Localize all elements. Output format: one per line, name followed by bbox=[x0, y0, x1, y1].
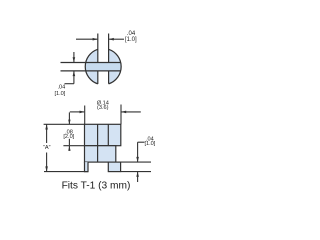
svg-text:[1.0]: [1.0] bbox=[54, 91, 65, 97]
svg-text:“A”: “A” bbox=[43, 145, 51, 151]
dim head height: bottom extension line bbox=[63, 145, 84, 147]
top view: H right bar fill bbox=[109, 48, 117, 85]
svg-text:.04: .04 bbox=[58, 85, 66, 91]
top view: circle outline right arc bbox=[109, 49, 122, 84]
dim head height: lower arrow below extension pointing up bbox=[68, 146, 70, 151]
dim crossbar: leader horizontal bbox=[65, 83, 74, 85]
top view: crossbar bottom edge + left extension line bbox=[61, 70, 121, 72]
top extension line for A and .08 bbox=[44, 123, 85, 125]
top view: bottom slot cutout bbox=[98, 72, 108, 89]
dim dia: right dim line arrow pointing left bbox=[122, 111, 141, 113]
side view: head block bbox=[85, 124, 121, 145]
side view: head slot line right bbox=[107, 124, 109, 145]
dim A: lower arrow pointing down bbox=[46, 153, 48, 172]
dim dia: left dim line arrow pointing right bbox=[70, 111, 84, 113]
side view: left leg bbox=[85, 162, 89, 172]
top view: crossbar top edge + left extension line bbox=[61, 62, 121, 64]
dim foot height: top extension line right bbox=[121, 161, 151, 163]
top view: slot left side line upper bbox=[97, 34, 99, 63]
top view: slot right side line upper bbox=[108, 34, 110, 63]
top view: slot left side line lower bbox=[97, 71, 99, 84]
dim foot height: bottom extension line right bbox=[121, 171, 151, 173]
top view: top slot cutout bbox=[98, 44, 108, 62]
svg-text:[1.0]: [1.0] bbox=[125, 37, 137, 43]
dim slot width: left dim line with right-pointing arrow bbox=[76, 38, 97, 40]
top view: slot right side line lower bbox=[108, 71, 110, 84]
svg-text:Fits T-1 (3 mm): Fits T-1 (3 mm) bbox=[62, 181, 131, 192]
side view: body block bbox=[85, 146, 116, 162]
dim foot height: leader horizontal bbox=[138, 141, 145, 143]
dim foot height: upper arrow pointing down bbox=[137, 142, 139, 162]
dim dia: left extension line up bbox=[84, 106, 86, 125]
dim A: bottom extension line bbox=[44, 171, 88, 173]
dim dia: right extension line up bbox=[120, 105, 122, 125]
dim A: upper arrow pointing up bbox=[46, 125, 48, 144]
top view: spacer body circle fill bbox=[85, 48, 121, 84]
dim crossbar: lower arrow line pointing up bbox=[73, 71, 75, 84]
side view: right foot bbox=[108, 162, 120, 172]
dim foot height: lower arrow pointing up bbox=[137, 172, 139, 182]
top view: circle outline left arc bbox=[85, 49, 98, 84]
top view: crossbar fill bbox=[85, 62, 121, 71]
side view: head slot line left bbox=[97, 124, 99, 145]
side view: body slot line bbox=[97, 146, 99, 162]
svg-text:[1.0]: [1.0] bbox=[144, 141, 155, 147]
dim slot width: right dim line with left-pointing arrow bbox=[109, 38, 124, 40]
svg-text:(3.6): (3.6) bbox=[97, 105, 109, 111]
dim crossbar: upper arrow line pointing down bbox=[73, 52, 75, 62]
dim head height: connector line to bottom extension bbox=[68, 139, 70, 145]
top view: H left bar fill bbox=[90, 48, 98, 85]
dim head height: upper arrow line from dia dim, pointing down bbox=[68, 112, 70, 124]
